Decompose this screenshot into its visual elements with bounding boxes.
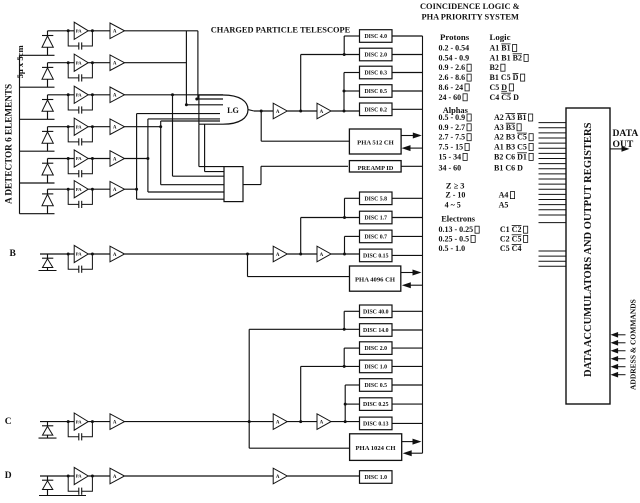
svg-text:PA: PA [76, 124, 82, 129]
svg-text:DISC 0.2: DISC 0.2 [364, 107, 387, 113]
svg-text:A: A [113, 420, 117, 425]
svg-text:DISC 1.7: DISC 1.7 [364, 216, 387, 222]
svg-text:B2: B2 [490, 63, 499, 72]
svg-text:PA: PA [76, 156, 82, 161]
svg-text:7.5 - 15: 7.5 - 15 [439, 143, 464, 152]
svg-text:A3 B3: A3 B3 [494, 123, 515, 132]
svg-text:Protons: Protons [440, 32, 470, 42]
svg-text:A2 A3 B1: A2 A3 B1 [494, 113, 526, 122]
svg-text:DISC 1.0: DISC 1.0 [364, 475, 387, 481]
svg-text:DISC 1.0: DISC 1.0 [364, 365, 387, 371]
svg-text:0.2 - 0.54: 0.2 - 0.54 [439, 44, 470, 53]
svg-text:2.6 - 8.6: 2.6 - 8.6 [439, 73, 466, 82]
svg-text:A: A [113, 475, 117, 480]
svg-text:PA: PA [76, 419, 82, 424]
svg-text:COINCIDENCE LOGIC &: COINCIDENCE LOGIC & [420, 2, 520, 11]
svg-text:Z - 10: Z - 10 [445, 191, 465, 200]
svg-text:LG: LG [227, 106, 239, 115]
svg-text:24 - 60: 24 - 60 [439, 93, 462, 102]
svg-text:0.5 - 0.9: 0.5 - 0.9 [439, 113, 466, 122]
svg-text:A: A [276, 475, 280, 480]
svg-text:ADDRESS & COMMANDS: ADDRESS & COMMANDS [629, 299, 638, 390]
svg-text:Logic: Logic [490, 32, 511, 42]
svg-text:A: A [113, 62, 117, 67]
svg-text:C: C [5, 417, 12, 427]
svg-text:B2 C6 D1: B2 C6 D1 [494, 152, 527, 161]
svg-text:A1 B1: A1 B1 [490, 44, 511, 53]
svg-text:34 - 60: 34 - 60 [439, 163, 462, 172]
svg-text:A: A [113, 253, 117, 258]
svg-text:C5 D: C5 D [490, 83, 508, 92]
svg-text:0.25 - 0.5: 0.25 - 0.5 [439, 234, 470, 243]
svg-text:A5: A5 [499, 200, 509, 209]
svg-text:PA: PA [76, 252, 82, 257]
svg-text:0.5 - 1.0: 0.5 - 1.0 [439, 244, 466, 253]
svg-text:PHA 4096 CH: PHA 4096 CH [355, 277, 396, 284]
svg-text:DISC 2.0: DISC 2.0 [364, 53, 387, 59]
svg-text:2.7 - 7.5: 2.7 - 7.5 [439, 133, 466, 142]
svg-text:A: A [276, 420, 280, 425]
svg-text:A: A [276, 110, 280, 115]
svg-text:0.9 - 2.6: 0.9 - 2.6 [439, 63, 466, 72]
svg-text:DISC 14.0: DISC 14.0 [363, 328, 389, 334]
svg-text:A: A [320, 420, 324, 425]
svg-text:DISC 0.5: DISC 0.5 [364, 89, 387, 95]
svg-text:8.6 - 24: 8.6 - 24 [439, 83, 464, 92]
svg-text:C4 C5 D: C4 C5 D [490, 93, 520, 102]
svg-text:A: A [113, 157, 117, 162]
svg-text:C2 C5: C2 C5 [500, 234, 522, 243]
svg-text:A1 B1 B2: A1 B1 B2 [490, 53, 522, 62]
svg-text:D: D [5, 471, 12, 481]
svg-text:4 ~ 5: 4 ~ 5 [445, 200, 461, 209]
svg-text:0.54 - 0.9: 0.54 - 0.9 [439, 53, 470, 62]
svg-text:PA: PA [76, 28, 82, 33]
svg-text:A DETECTOR 6 ELEMENTS: A DETECTOR 6 ELEMENTS [4, 84, 14, 204]
svg-text:PHA 512 CH: PHA 512 CH [357, 139, 395, 146]
svg-text:Electrons: Electrons [441, 215, 476, 224]
svg-text:B: B [10, 249, 17, 259]
svg-text:B1 C5 D: B1 C5 D [490, 73, 519, 82]
svg-text:DISC 4.0: DISC 4.0 [364, 34, 387, 40]
svg-text:DATA ACCUMULATORS AND OUTPUT R: DATA ACCUMULATORS AND OUTPUT REGISTERS [583, 122, 594, 377]
svg-text:DISC 2.0: DISC 2.0 [364, 346, 387, 352]
svg-text:PHA 1024 CH: PHA 1024 CH [356, 445, 397, 452]
svg-text:PHA PRIORITY SYSTEM: PHA PRIORITY SYSTEM [422, 13, 520, 22]
svg-text:15 - 34: 15 - 34 [439, 152, 462, 161]
svg-text:DATA: DATA [613, 128, 639, 139]
svg-text:DISC 0.7: DISC 0.7 [364, 235, 387, 241]
svg-text:A1 B3 C5: A1 B3 C5 [494, 143, 527, 152]
svg-text:PREAMP ID: PREAMP ID [358, 165, 394, 172]
svg-text:A: A [320, 253, 324, 258]
svg-text:A: A [320, 110, 324, 115]
svg-text:A: A [276, 253, 280, 258]
svg-text:A: A [113, 126, 117, 131]
svg-text:A2 B3 C5: A2 B3 C5 [494, 133, 527, 142]
svg-text:DISC 0.3: DISC 0.3 [364, 71, 387, 77]
svg-text:DISC 40.0: DISC 40.0 [363, 309, 389, 315]
svg-text:PA: PA [76, 60, 82, 65]
svg-text:C5 C4: C5 C4 [500, 244, 522, 253]
svg-text:C1 C2: C1 C2 [500, 225, 522, 234]
svg-text:PA: PA [76, 92, 82, 97]
svg-text:Z ≥ 3: Z ≥ 3 [446, 182, 465, 191]
svg-text:0.9 - 2.7: 0.9 - 2.7 [439, 123, 466, 132]
svg-text:A: A [113, 188, 117, 193]
svg-text:CHARGED PARTICLE TELESCOPE: CHARGED PARTICLE TELESCOPE [211, 25, 351, 34]
svg-text:PA: PA [76, 474, 82, 479]
svg-text:PA: PA [76, 187, 82, 192]
svg-text:DISC 0.13: DISC 0.13 [363, 422, 389, 428]
svg-text:0.13 - 0.25: 0.13 - 0.25 [439, 225, 474, 234]
svg-text:B1 C6 D: B1 C6 D [494, 163, 523, 172]
svg-text:A: A [113, 94, 117, 99]
svg-text:DISC 0.25: DISC 0.25 [363, 402, 389, 408]
svg-text:DISC 0.15: DISC 0.15 [363, 254, 389, 260]
svg-text:A4: A4 [499, 191, 509, 200]
svg-text:A: A [113, 30, 117, 35]
svg-text:DISC 5.8: DISC 5.8 [364, 196, 387, 202]
svg-text:DISC 0.5: DISC 0.5 [364, 383, 387, 389]
